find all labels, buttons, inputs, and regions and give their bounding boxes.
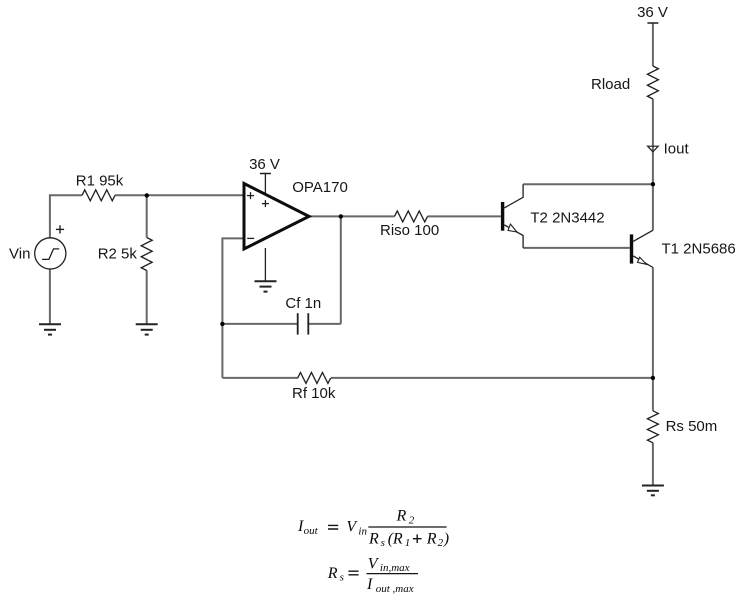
svg-text:R2 5k: R2 5k bbox=[98, 246, 138, 263]
svg-text:Rf 10k: Rf 10k bbox=[292, 385, 336, 402]
svg-text:36 V: 36 V bbox=[637, 4, 668, 21]
svg-text:OPA170: OPA170 bbox=[292, 179, 348, 196]
svg-text:Iout: Iout bbox=[664, 141, 690, 158]
svg-text:T1 2N5686: T1 2N5686 bbox=[662, 240, 736, 257]
svg-text:s: s bbox=[381, 537, 385, 549]
svg-text:T2 2N3442: T2 2N3442 bbox=[530, 210, 604, 227]
svg-text:out ,max: out ,max bbox=[376, 583, 414, 595]
svg-text:in: in bbox=[358, 526, 367, 538]
svg-text:in,max: in,max bbox=[380, 562, 410, 574]
svg-text:R: R bbox=[327, 565, 338, 582]
svg-text:R: R bbox=[392, 530, 403, 547]
svg-text:R: R bbox=[368, 530, 379, 547]
svg-text:I: I bbox=[366, 576, 373, 593]
svg-text:V: V bbox=[346, 519, 358, 536]
svg-text:R: R bbox=[396, 508, 407, 525]
svg-text:1: 1 bbox=[405, 537, 411, 549]
svg-text:Rload: Rload bbox=[591, 76, 630, 93]
svg-text:Rs 50m: Rs 50m bbox=[666, 418, 718, 435]
svg-text:Riso 100: Riso 100 bbox=[380, 222, 439, 239]
svg-text:): ) bbox=[443, 530, 449, 547]
svg-text:2: 2 bbox=[409, 514, 415, 526]
svg-text:Vin: Vin bbox=[9, 245, 30, 262]
svg-text:R1 95k: R1 95k bbox=[76, 172, 124, 189]
svg-text:R: R bbox=[426, 530, 437, 547]
svg-text:s: s bbox=[340, 571, 344, 583]
svg-text:Cf 1n: Cf 1n bbox=[285, 295, 321, 312]
svg-text:2: 2 bbox=[438, 537, 444, 549]
svg-text:V: V bbox=[368, 556, 380, 573]
svg-text:out: out bbox=[304, 525, 319, 537]
svg-text:36 V: 36 V bbox=[249, 156, 280, 173]
